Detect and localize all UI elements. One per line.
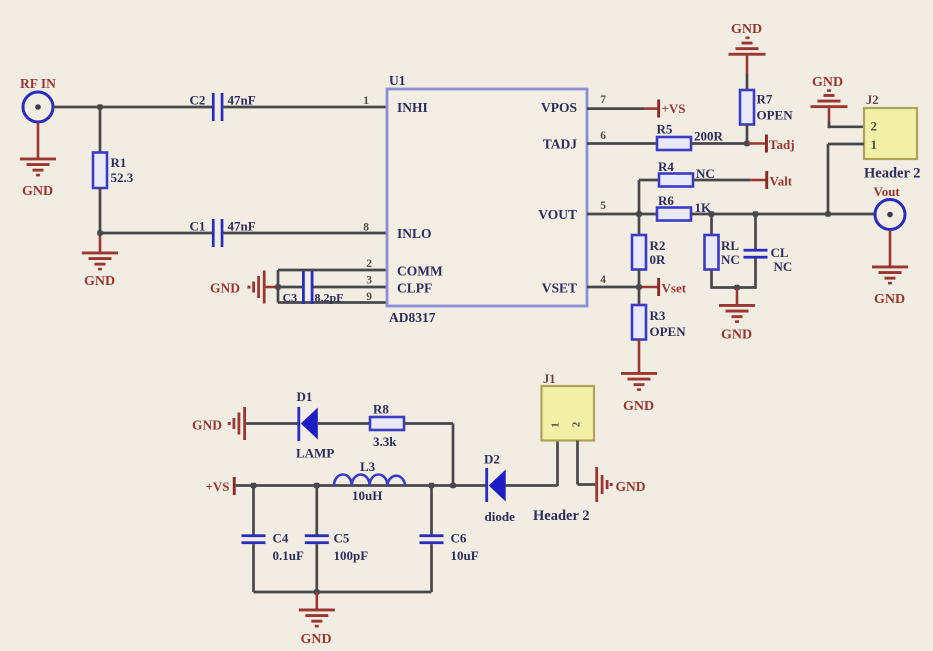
- svg-text:R5: R5: [657, 122, 673, 137]
- wire U1 pin 7 to +VS: [587, 107, 658, 110]
- svg-text:100pF: 100pF: [334, 548, 369, 563]
- wire D2 to J1 pin 1: [506, 441, 558, 487]
- svg-text:INHI: INHI: [397, 100, 428, 115]
- svg-text:C1: C1: [190, 219, 206, 234]
- svg-text:C6: C6: [451, 531, 467, 546]
- wire pin5 node to R2: [638, 214, 641, 235]
- wire U1 pin 4 to Vset: [587, 286, 658, 289]
- ground GND at J1 (right facing): [595, 467, 645, 502]
- pin name TADJ pin 6: [543, 130, 607, 152]
- ground GND under RF IN: [20, 158, 56, 200]
- wire R4 to Valt port: [693, 179, 766, 182]
- svg-text:D1: D1: [297, 389, 313, 404]
- resistor RL: [705, 235, 740, 270]
- wire D1 to R8: [318, 422, 370, 425]
- node junction R8 branch: [450, 483, 456, 489]
- svg-text:10uF: 10uF: [451, 548, 479, 563]
- svg-text:U1: U1: [389, 73, 406, 88]
- node junction J2 branch: [825, 211, 831, 217]
- pin name COMM pin 2: [366, 258, 443, 279]
- svg-text:0.1uF: 0.1uF: [273, 548, 304, 563]
- power +VS at pin 7: [657, 100, 685, 118]
- wire U1 pin 6 to R5: [587, 142, 657, 145]
- pin name CLPF pin 3: [366, 275, 432, 296]
- svg-text:200R: 200R: [694, 129, 724, 144]
- svg-text:VPOS: VPOS: [541, 100, 577, 115]
- node junction RL top: [709, 211, 715, 217]
- ground GND above R7: [729, 22, 766, 74]
- svg-text:52.3: 52.3: [111, 170, 134, 185]
- node junction C4: [251, 483, 257, 489]
- svg-text:NC: NC: [721, 252, 740, 267]
- svg-text:diode: diode: [485, 509, 516, 524]
- svg-text:R3: R3: [650, 308, 666, 323]
- capacitor CL: [744, 245, 793, 274]
- node junction CL top: [753, 211, 759, 217]
- resistor R8: [370, 402, 404, 450]
- svg-text:Vout: Vout: [874, 184, 901, 199]
- wire R5 to Tadj node: [691, 142, 747, 145]
- svg-text:6: 6: [600, 130, 606, 142]
- diode D2: [484, 452, 515, 525]
- resistor R7: [740, 90, 793, 125]
- svg-text:L3: L3: [360, 459, 376, 474]
- pin name VOUT pin 5: [538, 200, 606, 222]
- connector RF IN: [23, 92, 53, 122]
- node junction RL-CL ground: [734, 285, 740, 291]
- svg-text:GND: GND: [210, 281, 240, 296]
- wire R8 to +VS rail: [404, 424, 453, 487]
- wire R6 to Vout connector: [691, 213, 875, 216]
- ground GND at C3 (left facing): [210, 271, 278, 304]
- resistor R1: [93, 153, 134, 189]
- svg-text:GND: GND: [22, 184, 53, 199]
- svg-text:8.2pF: 8.2pF: [315, 291, 344, 305]
- svg-text:J2: J2: [866, 93, 879, 107]
- node junction at R1 top: [97, 104, 103, 110]
- capacitor C3: [283, 271, 344, 305]
- svg-text:NC: NC: [774, 259, 793, 274]
- svg-text:2: 2: [366, 258, 372, 270]
- wire C1 to U1 pin 8: [223, 232, 387, 235]
- wire R3 to ground: [638, 340, 641, 373]
- svg-text:CLPF: CLPF: [397, 281, 432, 296]
- power +VS bottom: [206, 477, 236, 495]
- svg-text:GND: GND: [623, 399, 654, 414]
- wire node to C1: [100, 232, 212, 235]
- connector J1 Header 2: [533, 372, 594, 524]
- wire +VS rail: [236, 484, 486, 487]
- resistor R5: [657, 122, 724, 151]
- svg-text:47nF: 47nF: [228, 219, 256, 234]
- svg-text:1: 1: [871, 137, 878, 152]
- resistor R2: [632, 235, 666, 270]
- ground GND under Vout: [872, 266, 908, 308]
- pin name INLO pin 8: [363, 222, 431, 242]
- svg-text:5: 5: [600, 200, 606, 212]
- svg-text:GND: GND: [301, 632, 332, 647]
- svg-text:+VS: +VS: [206, 479, 230, 494]
- wire C2 to U1 pin 1: [223, 106, 387, 109]
- node junction C3 ground: [275, 284, 281, 290]
- svg-text:GND: GND: [721, 328, 752, 343]
- pin name VSET pin 4: [542, 274, 607, 296]
- ground GND under R1: [82, 252, 118, 290]
- wire C3 vertical bus: [277, 270, 280, 303]
- ground GND bottom: [299, 609, 335, 648]
- wire R2 to pin4 line: [638, 270, 641, 288]
- svg-text:RL: RL: [721, 238, 739, 253]
- connector J2 Header 2: [864, 93, 921, 182]
- wire bottom rail: [254, 591, 432, 594]
- wire R4 branch vertical: [639, 180, 659, 214]
- resistor R6: [657, 193, 712, 221]
- pin number 9: [366, 291, 372, 303]
- svg-text:1: 1: [550, 422, 562, 428]
- node junction pin4/R3: [636, 284, 642, 290]
- wire node to Tadj port: [747, 142, 765, 145]
- svg-text:R8: R8: [373, 402, 389, 417]
- node junction R7/Tadj: [744, 141, 750, 147]
- svg-text:2: 2: [871, 119, 878, 134]
- op-amp U1 AD8317 body: [387, 73, 587, 325]
- node Vout label: [874, 184, 901, 199]
- wire U1 pin 5 to R6: [587, 213, 657, 216]
- wire to U1 pin 2: [278, 269, 387, 272]
- resistor R3: [632, 305, 686, 340]
- wire to U1 pin 9: [278, 301, 387, 304]
- capacitor C4: [242, 486, 304, 593]
- svg-text:VSET: VSET: [542, 281, 577, 296]
- svg-text:7: 7: [600, 94, 606, 106]
- connector Vout: [875, 200, 905, 230]
- svg-text:Vset: Vset: [662, 281, 687, 296]
- wire to ground RL-CL: [736, 289, 739, 305]
- wire RL top lead: [710, 214, 713, 235]
- node junction C6: [429, 483, 435, 489]
- wire GND to J2 pin 2: [828, 121, 864, 128]
- pin name INHI pin 1: [363, 95, 428, 115]
- capacitor C6: [420, 486, 479, 593]
- diode D1 LAMP: [296, 389, 334, 461]
- svg-text:VOUT: VOUT: [538, 207, 577, 222]
- svg-text:3: 3: [366, 275, 372, 287]
- svg-text:OPEN: OPEN: [650, 324, 687, 339]
- svg-text:GND: GND: [812, 75, 843, 90]
- wire to U1 pin 3: [278, 286, 387, 289]
- svg-text:10uH: 10uH: [352, 488, 382, 503]
- wire CL bottom lead: [754, 259, 757, 289]
- ground GND under RL-CL: [719, 304, 755, 343]
- wire GND to D1: [246, 422, 298, 425]
- svg-text:D2: D2: [484, 452, 500, 467]
- svg-text:C3: C3: [283, 291, 298, 305]
- wire junction to R1: [99, 107, 102, 153]
- svg-text:J1: J1: [543, 372, 556, 386]
- wire GND to R7: [746, 74, 749, 90]
- svg-text:AD8317: AD8317: [389, 310, 436, 325]
- node junction at C1: [97, 230, 103, 236]
- wire J1 pin 2 to ground: [578, 441, 596, 485]
- svg-text:C2: C2: [190, 93, 206, 108]
- svg-text:INLO: INLO: [397, 226, 432, 241]
- ground GND at D1 (left facing): [192, 407, 246, 440]
- svg-text:C5: C5: [334, 531, 350, 546]
- svg-text:Header 2: Header 2: [864, 166, 921, 182]
- svg-text:COMM: COMM: [397, 264, 443, 279]
- power port Valt: [765, 171, 793, 189]
- wire R1 to C1 node: [99, 188, 102, 233]
- svg-text:GND: GND: [192, 418, 222, 433]
- node junction C5: [314, 483, 320, 489]
- wire CL top lead: [754, 214, 757, 249]
- node junction bottom rail: [314, 589, 320, 595]
- wire RL-CL bottom link: [712, 286, 756, 289]
- capacitor C5: [305, 486, 368, 593]
- node junction pin5/R2: [636, 211, 642, 217]
- svg-text:R7: R7: [757, 92, 773, 107]
- node RF_IN label: [20, 76, 56, 91]
- wire bottom rail to ground: [315, 592, 318, 609]
- svg-text:Valt: Valt: [770, 174, 793, 189]
- power port Tadj: [765, 135, 795, 153]
- svg-text:47nF: 47nF: [228, 93, 256, 108]
- ground GND under R3: [621, 372, 657, 414]
- svg-text:GND: GND: [616, 479, 646, 494]
- wire C1 node to ground: [99, 235, 102, 252]
- ground GND above J2: [811, 75, 848, 121]
- wire J2 pin 1 to Vout node: [828, 144, 864, 214]
- svg-text:0R: 0R: [650, 252, 667, 267]
- pin name VPOS pin 7: [541, 94, 606, 115]
- svg-text:LAMP: LAMP: [296, 446, 334, 461]
- svg-text:+VS: +VS: [662, 101, 686, 116]
- wire RL bottom lead: [710, 270, 713, 289]
- svg-text:2: 2: [571, 421, 583, 427]
- svg-text:3.3k: 3.3k: [373, 434, 397, 449]
- svg-text:CL: CL: [771, 245, 789, 260]
- capacitor C1: [190, 219, 256, 248]
- svg-text:R1: R1: [111, 155, 127, 170]
- wire Vout to ground: [889, 230, 892, 266]
- svg-text:OPEN: OPEN: [757, 108, 794, 123]
- svg-text:TADJ: TADJ: [543, 137, 578, 152]
- svg-text:8: 8: [363, 222, 369, 234]
- svg-text:Header 2: Header 2: [533, 508, 590, 524]
- svg-text:R4: R4: [658, 159, 674, 174]
- svg-text:GND: GND: [84, 274, 115, 289]
- capacitor C2: [190, 93, 256, 122]
- inductor L3: [334, 459, 405, 503]
- svg-text:4: 4: [600, 274, 606, 286]
- svg-text:C4: C4: [273, 531, 289, 546]
- svg-text:9: 9: [366, 291, 372, 303]
- svg-text:RF IN: RF IN: [20, 76, 56, 91]
- svg-text:R6: R6: [658, 193, 674, 208]
- wire R7 to Tadj node: [746, 125, 749, 144]
- svg-text:R2: R2: [650, 238, 666, 253]
- wire RF IN to C2: [53, 106, 212, 109]
- wire pin4 node to R3: [638, 287, 641, 305]
- svg-text:1: 1: [363, 95, 369, 107]
- wire RF IN to ground stem: [37, 123, 40, 158]
- svg-text:GND: GND: [731, 22, 762, 37]
- power port Vset: [657, 278, 687, 296]
- svg-text:Tadj: Tadj: [769, 137, 795, 152]
- resistor R4: [658, 159, 715, 187]
- svg-text:GND: GND: [874, 292, 905, 307]
